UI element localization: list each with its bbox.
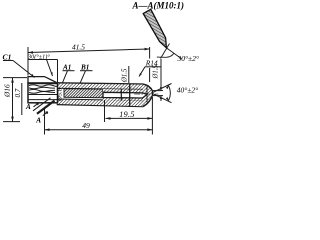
- svg-text:Ø5.8: Ø5.8: [56, 87, 63, 102]
- R14 leader: [139, 67, 145, 77]
- blade construction line right: [166, 48, 181, 59]
- bore top line: [58, 88, 144, 89]
- cross hole left: [120, 89, 122, 101]
- B1 leader: [80, 71, 85, 83]
- rod round part around flat (hatched): [103, 89, 147, 101]
- outer tube body outline: [58, 83, 153, 107]
- head inner line: [28, 94, 58, 96]
- dim 41.5 line: [28, 49, 150, 53]
- flattened blade slot of rod: [103, 92, 147, 98]
- bore bottom line: [58, 99, 144, 101]
- section trace thick: [37, 101, 55, 114]
- dim 49: [44, 107, 46, 135]
- svg-text:0.7: 0.7: [14, 88, 22, 97]
- dim 41.5 extension left: [27, 47, 29, 76]
- C1 leader: [13, 61, 35, 78]
- inner rod cylindrical part (hatched): [64, 89, 103, 98]
- 40 deg cone construction lines: [152, 84, 172, 94]
- svg-text:Ø1.5: Ø1.5: [121, 68, 128, 83]
- dia 1.5 cross hole dimension: [128, 66, 130, 83]
- blade construction line crossing: [161, 44, 170, 59]
- svg-text:19.5: 19.5: [119, 110, 135, 119]
- svg-text:A: A: [25, 103, 31, 111]
- svg-text:49: 49: [82, 121, 90, 130]
- dim 19.5: [104, 100, 106, 122]
- A1 leader: [63, 71, 68, 83]
- wavy elastic insert lines in head: [29, 85, 57, 87]
- 30deg extension down to chamfer corner: [57, 60, 59, 83]
- tube bottom wall hatch: [58, 99, 144, 106]
- svg-text:41.5: 41.5: [72, 42, 85, 51]
- angle arc 30 deg: [157, 56, 166, 58]
- rod left end line: [63, 89, 65, 98]
- tip cone transition edge: [146, 86, 148, 102]
- head lower line: [28, 99, 58, 101]
- dia 16 dimension: [3, 77, 27, 79]
- svg-text:Ø16: Ø16: [3, 84, 12, 98]
- svg-text:A: A: [35, 116, 41, 124]
- blade body: [143, 9, 166, 48]
- section arrow 1: [34, 103, 39, 107]
- cross hole Ø1.5: [129, 84, 131, 106]
- svg-text:30°±2°: 30°±2°: [177, 54, 199, 63]
- dia 1.5 tip dimension: [153, 90, 163, 92]
- tube tip wall hatch: [142, 85, 152, 106]
- svg-text:A—A(M10:1): A—A(M10:1): [132, 0, 185, 10]
- 30deg leader: [47, 60, 53, 77]
- dia 7 dimension: [21, 83, 23, 115]
- head top face thick line: [28, 82, 58, 84]
- tube top wall hatch: [58, 84, 144, 90]
- section arrow 2: [43, 112, 48, 116]
- cap boss with 30 deg chamfer: [28, 77, 58, 83]
- svg-text:R14: R14: [145, 58, 158, 67]
- section plane thin edge: [33, 98, 51, 111]
- dim 41.5 extension right: [149, 47, 151, 59]
- svg-text:40°±2°: 40°±2°: [177, 85, 198, 94]
- head block: [28, 83, 58, 103]
- centerline at tip: [134, 93, 159, 95]
